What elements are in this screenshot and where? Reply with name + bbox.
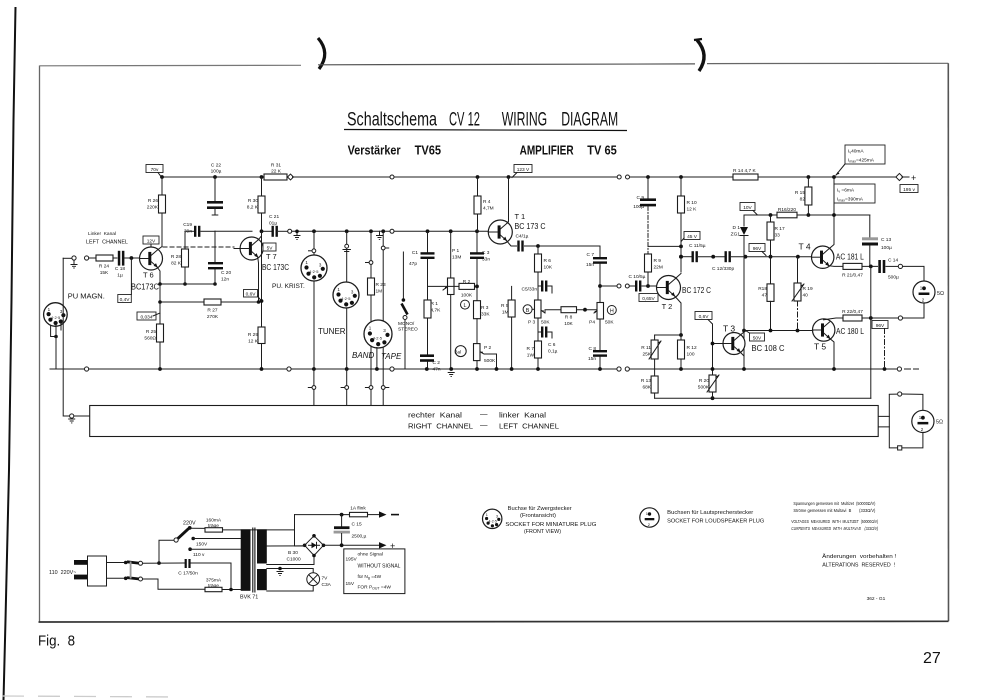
node 96V label output: [872, 321, 888, 329]
svg-text:0,6V: 0,6V: [246, 291, 257, 297]
capacitor C6 0.1u: [538, 327, 558, 355]
transistor T7 BC173C: [234, 237, 289, 272]
resistor R6 10K: [535, 246, 553, 300]
svg-text:L: L: [464, 303, 467, 309]
junction dots on top rail: [160, 175, 164, 179]
wire C14 to speaker socket 1: [903, 266, 925, 281]
svg-text:47p: 47p: [409, 261, 417, 267]
svg-text:150V: 150V: [196, 542, 208, 548]
node 5V label: [263, 243, 276, 251]
junction dots on ground rail: [158, 367, 162, 371]
svg-text:195 v: 195 v: [903, 187, 915, 193]
node 12V label: [143, 236, 159, 247]
svg-text:TV 65: TV 65: [587, 143, 617, 158]
capacitor C11 5u: [689, 243, 724, 262]
minus supply row: [295, 506, 400, 518]
ground symbol at P1 foot: [448, 373, 455, 377]
svg-text:1µ: 1µ: [117, 273, 123, 279]
film splice mark right: [697, 40, 704, 71]
input terminal circles: [71, 256, 89, 268]
svg-text:2500,µ: 2500,µ: [352, 534, 367, 540]
svg-text:C 20: C 20: [221, 270, 231, 276]
speaker socket 1: [913, 281, 944, 303]
svg-text:P 2: P 2: [484, 345, 491, 351]
svg-text:33K: 33K: [481, 312, 490, 318]
capacitor C2 47n: [420, 354, 441, 372]
wire C13 column: [869, 215, 871, 237]
capacitor C7 15n: [586, 246, 607, 303]
potentiometer P4 50K: [589, 303, 614, 349]
svg-text:10K: 10K: [564, 321, 573, 327]
svg-text:R 14 4,7 K: R 14 4,7 K: [733, 168, 756, 174]
wire T3 base column: [713, 343, 724, 345]
resistor R15 82: [795, 177, 812, 215]
text Linker Kanal / LEFT CHANNEL: [86, 231, 128, 246]
svg-text:R 15: R 15: [795, 190, 805, 196]
capacitor C9 100u: [633, 177, 683, 259]
svg-text:Buchsen für Lautsprecherstecke: Buchsen für Lautsprecherstecker: [667, 510, 753, 516]
resistor R10 12K: [678, 177, 698, 272]
svg-text:LEFT CHANNEL: LEFT CHANNEL: [86, 240, 128, 246]
wire base bias row y302: [160, 301, 204, 303]
svg-text:1M: 1M: [502, 310, 509, 316]
svg-text:27: 27: [923, 650, 941, 667]
svg-text:12 K: 12 K: [248, 339, 259, 345]
svg-text:96V: 96V: [753, 246, 762, 252]
svg-text:AMPLIFIER: AMPLIFIER: [520, 143, 574, 158]
capacitor C1 47p: [409, 231, 435, 286]
capacitor C18 1u: [113, 251, 140, 279]
svg-text:CURRENTS MEASURED WITH MULT: CURRENTS MEASURED WITH MULTAVI B (333Ω/V…: [791, 526, 878, 532]
svg-text:AC 180 L: AC 180 L: [836, 326, 864, 336]
svg-text:C 10/5µ: C 10/5µ: [629, 274, 646, 280]
svg-text:C 15: C 15: [352, 522, 362, 528]
svg-text:5V: 5V: [267, 245, 274, 251]
node 123V label: [512, 165, 532, 178]
wire speaker2 bottom loop: [902, 433, 923, 448]
svg-text:100K: 100K: [461, 293, 473, 299]
svg-text:PU MAGN.: PU MAGN.: [68, 292, 105, 301]
transistor T1 BC173C: [488, 212, 545, 244]
svg-text:T 5: T 5: [814, 342, 826, 352]
svg-text:BC 108 C: BC 108 C: [752, 343, 785, 353]
svg-text:100µ: 100µ: [881, 245, 892, 251]
svg-text:T 1: T 1: [515, 212, 526, 221]
svg-text:R 24: R 24: [99, 264, 109, 270]
resistor R9 22M: [645, 254, 663, 286]
resistor R30 8.2K: [247, 177, 265, 231]
wire T1 collector up: [507, 177, 509, 223]
svg-text:D 1: D 1: [733, 225, 741, 231]
legend DIN socket text: [505, 506, 596, 535]
text rechter Kanal / linker Kanal: [408, 410, 546, 420]
transistor T6 BC173C: [131, 247, 163, 292]
svg-text:H: H: [610, 309, 614, 315]
text alterations reserved: [822, 553, 896, 569]
svg-text:220K: 220K: [147, 205, 159, 211]
wire T6 emitter net down / R25 column: [159, 284, 161, 320]
svg-text:Iv40mA: Iv40mA: [848, 149, 864, 155]
svg-text:Fig. 8: Fig. 8: [38, 634, 75, 650]
svg-text:C 21: C 21: [269, 214, 279, 220]
wire output column x870.8 down: [870, 266, 872, 398]
svg-text:4·2·5: 4·2·5: [373, 336, 383, 341]
resistor R8 10K: [561, 307, 597, 327]
svg-text:R 31: R 31: [271, 163, 281, 169]
wires plug to selector: [107, 563, 124, 579]
current box Iv40mA Imax425mA: [836, 145, 885, 175]
svg-text:195V: 195V: [346, 557, 358, 563]
capacitor C21 01u: [262, 214, 292, 237]
svg-text:P4: P4: [589, 320, 595, 326]
svg-text:123 V: 123 V: [517, 167, 530, 173]
svg-text:Linker Kanal: Linker Kanal: [88, 231, 116, 237]
svg-text:C 11/5µ: C 11/5µ: [689, 243, 706, 249]
svg-text:22M: 22M: [654, 265, 663, 271]
svg-text:1A flink: 1A flink: [350, 506, 366, 512]
node 06V label under T7: [244, 290, 262, 301]
wire minus column x294.5: [295, 515, 305, 546]
svg-text:15K: 15K: [100, 270, 109, 276]
svg-text:R 25: R 25: [146, 329, 156, 335]
node 0.034 label: [137, 312, 160, 320]
ground stubs below signal row: [294, 230, 301, 240]
svg-text:362 - G1: 362 - G1: [867, 596, 886, 602]
dashed gang line T6-T7: [163, 246, 234, 248]
svg-text:WIRING: WIRING: [502, 110, 548, 131]
svg-text:R 4: R 4: [483, 199, 491, 205]
wire row y215: [744, 214, 777, 216]
svg-text:R 22/0,47: R 22/0,47: [842, 309, 863, 315]
node 70V supply label: [146, 165, 163, 177]
node 0.65V label: [639, 294, 658, 302]
svg-text:Verstärker: Verstärker: [348, 143, 401, 158]
svg-text:—: —: [480, 410, 488, 419]
node 96V label upper: [749, 244, 766, 256]
resistor R27 270K: [204, 299, 262, 320]
svg-text:P 1: P 1: [452, 248, 459, 254]
wire PU MAGN pins: [51, 325, 56, 336]
wire mono/stereo upper column: [402, 252, 406, 302]
wire output to speaker socket 2: [889, 393, 896, 395]
svg-text:R 30: R 30: [248, 198, 258, 204]
node 0.6V label: [695, 312, 712, 324]
wire left input ground column: [63, 258, 69, 416]
svg-text:B 30: B 30: [288, 550, 298, 556]
svg-text:SOCKET FOR LOUDSPEAKER PLUG: SOCKET FOR LOUDSPEAKER PLUG: [667, 519, 764, 525]
resistor R29 12K: [248, 231, 265, 369]
svg-text:R 13: R 13: [641, 378, 651, 384]
svg-text:7V: 7V: [322, 576, 329, 582]
resistor R7 1W: [527, 332, 542, 369]
text RIGHT CHANNEL / LEFT CHANNEL: [408, 421, 559, 431]
capacitor C22 100u: [207, 163, 223, 216]
svg-text:C19: C19: [183, 222, 192, 228]
lamp 7V C3A: [267, 573, 332, 591]
svg-text:Änderungen vorbehalten !: Änderungen vorbehalten !: [822, 553, 896, 560]
wire center tap with ground: [267, 567, 313, 576]
svg-text:40: 40: [803, 293, 809, 299]
svg-text:1: 1: [486, 513, 488, 517]
wire T4 collector up: [829, 177, 834, 249]
socket BAND/TAPE: [352, 320, 402, 361]
svg-text:13M: 13M: [452, 255, 461, 261]
svg-text:BC 172 C: BC 172 C: [682, 285, 711, 295]
node 195V label: [900, 185, 918, 193]
svg-text:ALTERATIONS RESERVED !: ALTERATIONS RESERVED !: [822, 563, 895, 569]
bus box stubs: [879, 416, 890, 427]
svg-text:1M: 1M: [376, 289, 383, 295]
svg-text:R 11: R 11: [641, 345, 651, 351]
wire speaker1 bottom to R22 row: [903, 303, 925, 318]
svg-text:500K: 500K: [698, 385, 710, 391]
svg-text:15V: 15V: [346, 581, 355, 587]
svg-text:Bal: Bal: [455, 350, 462, 355]
svg-text:4·2·5: 4·2·5: [51, 315, 61, 320]
svg-text:01µ: 01µ: [269, 221, 277, 227]
socket PU KRIST: [272, 255, 327, 290]
node 10V label: [740, 203, 757, 215]
svg-text:70v: 70v: [151, 167, 159, 173]
svg-text:Ströme gemessen mit Multavi B: Ströme gemessen mit Multavi B (333Ω/V): [793, 508, 875, 514]
transistor T5 AC180L: [813, 319, 865, 352]
power switch 220V: [159, 521, 205, 564]
svg-text:TUNER: TUNER: [318, 327, 346, 336]
svg-text:R 8: R 8: [565, 315, 573, 321]
svg-text:5Ω: 5Ω: [937, 291, 944, 297]
resistor R19 40 variable: [792, 257, 813, 331]
svg-text:TV65: TV65: [415, 143, 442, 158]
resistor R14 4.7K (in rail): [733, 168, 758, 180]
svg-text:C 6: C 6: [548, 342, 556, 348]
resistor R20 500K variable: [698, 369, 719, 398]
capacitor C14 500u: [878, 258, 902, 281]
svg-text:R 12: R 12: [687, 345, 697, 351]
svg-text:82 K: 82 K: [171, 261, 182, 267]
svg-text:33: 33: [775, 233, 781, 239]
fuse 375mA: [143, 578, 241, 592]
resistor R24 15K: [96, 255, 113, 276]
svg-text:0,65V: 0,65V: [642, 296, 655, 302]
wire secondary mid to rectifier bottom: [267, 556, 314, 565]
transformer taps 150V 110V: [188, 537, 240, 558]
wire T5 collector to R22: [824, 318, 844, 320]
node 0.4V label: [118, 256, 134, 303]
svg-text:R 7: R 7: [527, 346, 535, 352]
svg-text:R 21/0,47: R 21/0,47: [842, 273, 863, 279]
wire row231 to T7: [215, 230, 252, 232]
svg-text:ohne Signal: ohne Signal: [358, 552, 383, 558]
svg-text:4·2·5: 4·2·5: [489, 520, 497, 524]
switch contact TUNER: [341, 369, 349, 406]
svg-text:500µ: 500µ: [888, 275, 899, 281]
capacitor C20 12n: [208, 231, 231, 284]
svg-text:PU. KRIST.: PU. KRIST.: [272, 283, 305, 290]
svg-text:R 28: R 28: [171, 254, 181, 260]
svg-text:50K: 50K: [541, 320, 550, 326]
capacitor C19 39n: [183, 222, 215, 237]
resistor R13 68K: [641, 376, 658, 398]
svg-text:BC173C: BC173C: [131, 282, 159, 292]
svg-text:0,034: 0,034: [140, 314, 152, 320]
svg-text:45 V: 45 V: [687, 234, 698, 240]
svg-text:110 220V~: 110 220V~: [49, 570, 76, 576]
svg-text:375mA: 375mA: [206, 578, 222, 584]
svg-text:12n: 12n: [221, 277, 229, 283]
svg-text:VOLTAGES MEASURED WITH MULT: VOLTAGES MEASURED WITH MULTIZET (50000Ω/…: [791, 519, 878, 525]
wire T7 emitter down: [257, 257, 260, 302]
label circle L: [461, 300, 470, 309]
wire selector to C17 and transformer: [143, 563, 231, 590]
socket TUNER: [318, 282, 359, 336]
wire rail segment 4: [630, 176, 734, 178]
svg-text:(Frontansicht): (Frontansicht): [520, 513, 556, 519]
svg-text:160mA: 160mA: [206, 518, 222, 524]
resistor R28 82K: [171, 233, 189, 284]
svg-text:12V: 12V: [147, 238, 156, 244]
svg-text:100: 100: [687, 352, 695, 358]
svg-text:4,7M: 4,7M: [483, 206, 494, 212]
svg-text:BC 173C: BC 173C: [262, 262, 289, 272]
mains plug: [49, 556, 107, 586]
svg-text:(FRONT VIEW): (FRONT VIEW): [524, 529, 561, 535]
svg-text:R 29: R 29: [248, 332, 258, 338]
current box Iv6mA Imax390mA: [834, 184, 875, 203]
svg-text:R18: R18: [758, 286, 767, 292]
resistor R16 220: [777, 207, 870, 218]
wire secondary top to rectifier: [267, 545, 305, 547]
svg-text:C 14: C 14: [888, 258, 898, 264]
svg-text:R 9: R 9: [654, 258, 662, 264]
svg-text:3: 3: [496, 515, 498, 519]
svg-text:500K: 500K: [484, 358, 496, 364]
svg-text:22 K: 22 K: [271, 169, 282, 175]
rectifier B30 C1000: [287, 534, 326, 563]
svg-text:4·2·5: 4·2·5: [309, 269, 319, 274]
wire T6 emitter down: [157, 267, 160, 284]
fuse 160mA: [205, 518, 295, 533]
svg-text:DIAGRAM: DIAGRAM: [561, 110, 618, 131]
wire T5 emitter down: [830, 339, 834, 370]
svg-text:270K: 270K: [207, 314, 219, 320]
svg-text:C1000: C1000: [287, 557, 301, 563]
wire signal row y231 middle: [292, 230, 390, 232]
svg-text:T 3: T 3: [723, 324, 735, 334]
resistor R31 (in rail): [264, 163, 293, 181]
wire T2 base row y286: [600, 285, 617, 287]
svg-text:C 18: C 18: [115, 266, 125, 272]
svg-text:8,2 K: 8,2 K: [247, 205, 259, 211]
svg-text:C 22: C 22: [211, 163, 221, 169]
wire emitter node row y335: [655, 334, 681, 336]
wire rail segment 3: [394, 176, 617, 178]
svg-text:560Ω: 560Ω: [144, 336, 156, 342]
potentiometer P3 50K: [528, 300, 561, 332]
transformer BVK 71: [240, 528, 267, 601]
svg-text:CV 12: CV 12: [449, 110, 480, 131]
svg-text:4·2·5: 4·2·5: [341, 296, 351, 301]
wire lower row y398: [655, 397, 871, 399]
svg-text:C3A: C3A: [322, 582, 332, 588]
resistor R5 1M: [501, 286, 515, 369]
wire T3 emitter: [740, 352, 744, 356]
svg-text:68K: 68K: [642, 385, 651, 391]
subtitle Verstaerker TV65 / AMPLIFIER TV 65: [348, 143, 617, 158]
voltage selector switch: [124, 561, 143, 581]
resistor R25 560: [144, 320, 163, 369]
resistor R4 4.7M: [474, 177, 494, 231]
svg-text:T 2: T 2: [662, 302, 673, 311]
svg-text:P 3: P 3: [528, 320, 535, 326]
resistor R17 33: [767, 215, 785, 284]
svg-text:R 10: R 10: [687, 200, 697, 206]
svg-text:T 4: T 4: [799, 242, 811, 252]
svg-text:WITHOUT SIGNAL: WITHOUT SIGNAL: [358, 564, 401, 570]
svg-text:50V: 50V: [753, 335, 762, 341]
svg-text:100µ: 100µ: [211, 169, 222, 175]
svg-text:C1: C1: [412, 250, 418, 256]
svg-text:Schaltschema: Schaltschema: [347, 110, 437, 131]
svg-text:Iv =6mA: Iv =6mA: [837, 188, 855, 194]
transistor T4 AC181L: [799, 242, 865, 269]
wire rail segment 5: [758, 176, 897, 178]
svg-text:0,4V: 0,4V: [120, 297, 131, 303]
svg-text:T 7: T 7: [266, 252, 277, 261]
svg-text:R 6: R 6: [544, 258, 552, 264]
info box voltages: [344, 549, 405, 594]
svg-text:Spannungen gemessen mit Multi: Spannungen gemessen mit Multizet (50000Ω…: [793, 501, 875, 507]
svg-text:linker Kanal: linker Kanal: [499, 411, 546, 420]
svg-text:10V: 10V: [743, 205, 752, 211]
svg-text:SOCKET FOR MINIATURE PLUG: SOCKET FOR MINIATURE PLUG: [505, 522, 596, 528]
svg-text:0,1µ: 0,1µ: [548, 349, 558, 355]
wire T2 emitter down: [675, 296, 681, 335]
input selector contacts above sockets: [309, 249, 316, 253]
svg-text:LEFT CHANNEL: LEFT CHANNEL: [499, 422, 559, 431]
svg-text:C 12/330p: C 12/330p: [712, 266, 734, 272]
svg-text:5Ω: 5Ω: [936, 420, 943, 426]
label circle B: [523, 305, 532, 314]
wire emitter row y284: [160, 283, 215, 285]
svg-text:110 v: 110 v: [193, 552, 205, 558]
resistor R23 1M: [368, 278, 386, 386]
capacitor C15 2500u: [334, 515, 367, 546]
svg-text:MONO/: MONO/: [398, 321, 415, 327]
switch contact TAPE: [381, 386, 388, 406]
capacitor C8 15n: [588, 346, 607, 369]
wire T5 base row y330: [744, 330, 813, 332]
potentiometer P1 13M: [443, 231, 461, 369]
speaker socket 2: [912, 410, 943, 432]
wire D1 column down to rail: [743, 257, 745, 369]
wire rail segment 2: [293, 176, 391, 178]
transistor T2 BC172C: [657, 276, 712, 312]
wire B row: [532, 308, 534, 310]
plus supply row: [324, 541, 396, 551]
svg-text:T 6: T 6: [143, 271, 154, 280]
capacitor C17 50n: [178, 559, 198, 577]
svg-text:rechter Kanal: rechter Kanal: [408, 411, 462, 420]
capacitor C4 1u: [506, 234, 539, 252]
potentiometer P2 500K with Bal: [455, 344, 497, 369]
svg-text:R 17: R 17: [775, 226, 785, 232]
svg-text:50K: 50K: [605, 320, 614, 326]
svg-text:BC 173 C: BC 173 C: [515, 221, 546, 231]
svg-text:1W: 1W: [527, 353, 535, 359]
svg-text:Buchse für Zwergstecker: Buchse für Zwergstecker: [508, 506, 572, 512]
svg-text:ZG1: ZG1: [731, 232, 741, 238]
resistor R1 47K: [424, 286, 441, 354]
